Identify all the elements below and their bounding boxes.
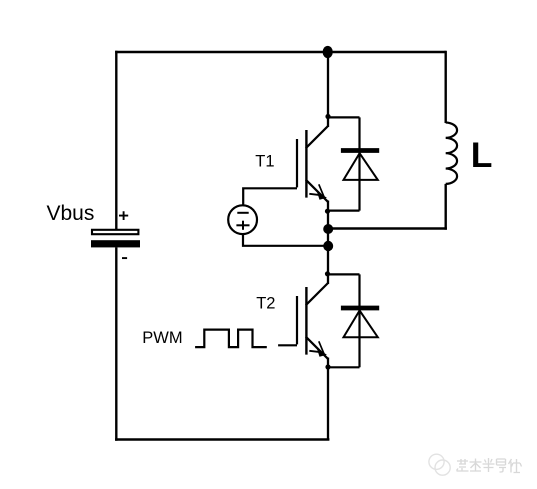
svg-text:T1: T1 — [255, 153, 274, 171]
node T1 emitter junction — [325, 209, 330, 214]
node top bus junction — [323, 46, 333, 58]
wire T2 collector stub — [327, 273, 329, 284]
watermark text 基本半导体 — [457, 458, 522, 473]
node phase A junction — [323, 224, 333, 234]
diode D2 (T2 anti-parallel) — [327, 274, 379, 367]
node D1 top junction — [325, 114, 330, 119]
svg-text:L: L — [471, 135, 493, 175]
svg-text:PWM: PWM — [142, 329, 182, 347]
diode D1 (T1 anti-parallel) — [327, 117, 379, 210]
transistor T2 (IGBT) — [297, 283, 328, 369]
capacitor Vbus top plate — [92, 230, 138, 234]
wire left vertical upper (Vbus +) — [115, 51, 117, 229]
voltage source V1 (gate drive) — [228, 205, 257, 234]
inductor L — [446, 123, 457, 184]
watermark logo — [429, 454, 450, 475]
wire left vertical lower (Vbus -) — [115, 247, 117, 440]
wire midpoint vertical (T1 emitter to T2 collector) — [327, 210, 329, 275]
label minus (Vbus) — [122, 257, 127, 259]
wire phase node to inductor — [328, 227, 447, 229]
wire bottom bus — [115, 438, 329, 440]
node T2 emitter junction — [325, 364, 330, 369]
wire T1 collector vertical — [327, 52, 329, 127]
transistor T1 (IGBT) — [297, 126, 328, 212]
wire right vertical upper — [445, 51, 447, 123]
svg-text:T2: T2 — [256, 295, 275, 313]
wire T1 gate lead — [243, 188, 297, 206]
node gate-return junction — [323, 241, 333, 251]
PWM waveform — [195, 330, 267, 348]
capacitor Vbus bottom plate — [91, 240, 140, 247]
node D2 top junction — [325, 271, 330, 276]
svg-text:Vbus: Vbus — [47, 202, 95, 225]
label plus (Vbus) — [119, 211, 128, 220]
wire top bus — [115, 51, 446, 53]
wire V1 return to node — [243, 234, 328, 246]
wire T2 gate lead — [278, 344, 297, 346]
wire T2 emitter vertical — [327, 366, 329, 440]
wire right vertical lower — [445, 184, 447, 230]
